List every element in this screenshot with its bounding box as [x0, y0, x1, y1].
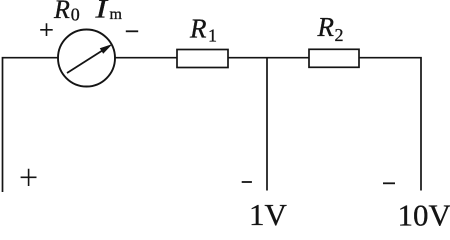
svg-text:R: R [53, 0, 70, 24]
svg-text:2: 2 [335, 25, 344, 45]
svg-text:1: 1 [208, 26, 217, 46]
svg-text:R: R [317, 12, 335, 42]
svg-text:1V: 1V [249, 197, 288, 226]
svg-text:10V: 10V [398, 198, 450, 227]
svg-text:m: m [110, 6, 123, 23]
svg-text:0: 0 [71, 5, 80, 25]
svg-text:R: R [189, 14, 207, 44]
svg-text:I: I [94, 0, 109, 23]
